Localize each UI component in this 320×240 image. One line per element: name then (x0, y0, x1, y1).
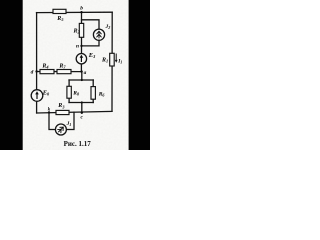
svg-text:R2: R2 (73, 29, 81, 35)
wire E3 to node a (80, 64, 82, 72)
wire J2 branch lower (82, 40, 100, 46)
svg-text:R1: R1 (101, 58, 108, 64)
emf source E3 (76, 54, 86, 64)
node k (48, 111, 50, 113)
svg-text:b: b (80, 6, 83, 12)
wire left (E0 to bottom corner) (36, 101, 38, 113)
svg-text:I1: I1 (117, 59, 122, 65)
svg-text:R4: R4 (41, 64, 49, 70)
wire node a to parallel top connector (81, 72, 83, 80)
current source J1 (55, 124, 66, 135)
junction c-stub (81, 101, 83, 103)
wire node b down to R2 (81, 12, 83, 23)
svg-text:Рис. 1.17: Рис. 1.17 (64, 140, 92, 148)
current arrow I1 (115, 54, 118, 63)
node d (35, 70, 37, 72)
wire J2 branch upper (82, 20, 100, 29)
svg-text:R7: R7 (58, 63, 66, 69)
wire right (111, 12, 113, 111)
resistor R1 right branch (110, 53, 115, 66)
svg-text:R6: R6 (98, 92, 106, 98)
wire bottom (37, 111, 112, 113)
svg-text:R5: R5 (56, 16, 64, 22)
node n (80, 45, 82, 47)
svg-text:R8: R8 (72, 90, 79, 96)
wire J1 loop right (66, 112, 74, 129)
wire left parallel branch bottom (68, 98, 70, 102)
svg-text:J1: J1 (66, 121, 72, 127)
wire right parallel branch bottom (92, 99, 94, 102)
wire parallel bottom connector (69, 102, 93, 104)
wire top (d-corner to right corner through R5 and node b) (37, 11, 113, 13)
svg-text:d: d (31, 70, 34, 76)
resistor R4 (40, 70, 54, 74)
wire J1 loop left (49, 113, 55, 130)
resistor R3 (56, 110, 69, 114)
svg-text:J2: J2 (105, 24, 111, 30)
resistor R2 (79, 23, 83, 37)
resistor R7 (57, 70, 71, 74)
node a (80, 70, 82, 72)
wire connector to node c (81, 103, 83, 113)
svg-text:n: n (76, 44, 79, 50)
node c (81, 112, 83, 114)
resistor R8 parallel left (67, 86, 71, 98)
svg-text:R3: R3 (57, 103, 65, 109)
current source J2 (93, 29, 104, 40)
emf source E0 (31, 90, 43, 102)
wire R2 bottom to node n (81, 37, 83, 46)
wire middle d to a (37, 71, 82, 73)
wire node n to E3 (81, 46, 83, 54)
wire parallel top connector (69, 79, 93, 81)
wire right parallel branch top (92, 80, 94, 87)
junction a-stub (81, 79, 83, 81)
wire left (top corner down to E0) (36, 13, 38, 90)
resistor R5 (53, 9, 66, 13)
resistor R6 parallel right (91, 87, 95, 100)
wire left parallel branch top (68, 80, 70, 86)
svg-text:a: a (84, 70, 87, 76)
node b (80, 11, 82, 13)
